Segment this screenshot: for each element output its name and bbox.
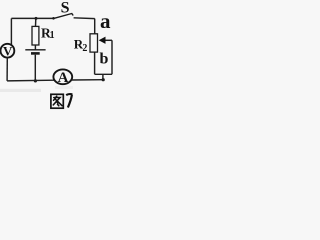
node junction dot on top rail bbox=[35, 17, 38, 20]
wire b horizontal segment bbox=[95, 73, 112, 75]
svg-text:2: 2 bbox=[82, 43, 87, 54]
rheostat wiper arrow bbox=[99, 37, 106, 44]
wire R2 top lead bbox=[94, 19, 96, 34]
node terminal dot bottom right bbox=[102, 78, 105, 81]
battery short thick plate bbox=[31, 52, 40, 55]
ammeter A circle bbox=[53, 69, 72, 84]
battery long plate bbox=[25, 49, 45, 51]
svg-text:a: a bbox=[100, 9, 111, 33]
faint scan smudge artifact bbox=[55, 86, 73, 89]
svg-text:A: A bbox=[58, 70, 69, 86]
node junction dot on bottom rail bbox=[34, 79, 37, 82]
svg-text:S: S bbox=[61, 0, 70, 17]
caption digit 7 diagonal bbox=[68, 95, 72, 108]
svg-text:1: 1 bbox=[50, 30, 55, 41]
wire R1 top lead bbox=[35, 18, 37, 26]
wire top rail left segment bbox=[11, 17, 52, 19]
wire b-node stub bbox=[102, 74, 104, 79]
wire voltmeter bottom lead bbox=[6, 58, 8, 81]
faint scan streak artifact bbox=[0, 89, 41, 92]
voltmeter V circle bbox=[1, 44, 15, 58]
switch S left contact bbox=[52, 17, 55, 20]
wire wiper vertical lead bbox=[111, 40, 113, 74]
wire R1 to battery lead bbox=[34, 45, 36, 50]
wire bottom rail left segment bbox=[7, 79, 54, 82]
wire wiper horizontal lead bbox=[105, 39, 112, 41]
wire top rail right segment bbox=[74, 17, 95, 20]
wire bottom rail right segment bbox=[72, 79, 103, 81]
resistor R2 bbox=[90, 34, 98, 52]
resistor R1 bbox=[32, 26, 39, 45]
svg-text:b: b bbox=[100, 51, 109, 68]
caption character tu (figure) outer box bbox=[51, 94, 63, 108]
switch S blade bbox=[54, 14, 73, 19]
caption character tu inner strokes bbox=[53, 96, 62, 106]
wire R2 bottom lead bbox=[94, 52, 96, 74]
caption digit 7 top bar bbox=[66, 94, 72, 95]
wire voltmeter top lead bbox=[10, 18, 12, 44]
wire battery bottom lead bbox=[34, 55, 36, 81]
svg-text:V: V bbox=[3, 43, 13, 58]
